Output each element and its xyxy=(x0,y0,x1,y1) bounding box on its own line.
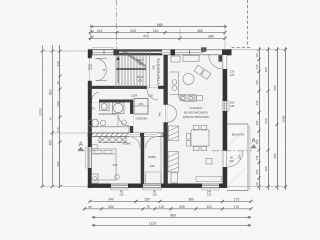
soba2 bed xyxy=(146,172,162,184)
svg-text:170: 170 xyxy=(234,205,240,209)
balcony xyxy=(227,124,250,191)
kitchen counter top rect xyxy=(183,56,199,62)
interior wall room divider xyxy=(141,137,145,184)
interior faint wash xyxy=(91,55,223,184)
svg-text:KUPAONICA: KUPAONICA xyxy=(99,112,116,116)
svg-text:230: 230 xyxy=(56,61,60,66)
bottom dimension row B xyxy=(83,207,253,210)
window top 1 xyxy=(93,51,114,53)
dimension row 1 top (980) xyxy=(90,25,227,27)
svg-text:A: A xyxy=(252,139,256,145)
svg-text:200: 200 xyxy=(255,139,259,144)
svg-text:210: 210 xyxy=(255,80,259,85)
svg-text:220: 220 xyxy=(229,159,234,163)
svg-text:110: 110 xyxy=(255,53,259,58)
interior wall below stairs xyxy=(88,86,164,89)
staircase mid rail xyxy=(116,68,146,70)
bottom dimension row A xyxy=(89,200,253,203)
left dimension line L1 xyxy=(41,45,44,188)
svg-text:220: 220 xyxy=(88,67,93,71)
dimension row 3 top xyxy=(89,37,227,40)
section marker A left xyxy=(78,142,85,151)
window label S2 xyxy=(152,189,157,196)
window top small xyxy=(162,51,171,53)
svg-text:KUHINJA: KUHINJA xyxy=(190,106,203,110)
svg-text:360: 360 xyxy=(49,140,53,146)
bottom dimension row D (1120) xyxy=(92,224,251,226)
svg-text:SOBA: SOBA xyxy=(148,155,156,159)
staircase xyxy=(116,50,146,88)
entry opening jamb lines xyxy=(88,57,92,59)
bathroom shower xyxy=(113,103,125,114)
svg-text:1120: 1120 xyxy=(149,221,157,225)
section line A-A xyxy=(78,150,252,152)
soba1 bed xyxy=(92,149,117,180)
window label S1 xyxy=(119,189,124,196)
dining table xyxy=(187,126,210,151)
interior wall bathroom right xyxy=(130,100,133,134)
svg-text:960: 960 xyxy=(170,213,176,217)
svg-text:55: 55 xyxy=(88,205,92,209)
soba1 wardrobe xyxy=(99,137,126,143)
kitchen counter L xyxy=(170,72,203,102)
svg-text:395: 395 xyxy=(264,166,268,171)
entry double door arcs xyxy=(96,58,108,80)
svg-text:170: 170 xyxy=(234,197,240,201)
label 100/140 right xyxy=(230,101,235,108)
svg-text:20: 20 xyxy=(90,35,94,39)
left wall xyxy=(86,50,92,189)
kitchen round table xyxy=(183,74,194,85)
svg-text:200: 200 xyxy=(255,120,259,125)
staircase break line xyxy=(121,50,147,68)
roof outline dashed horizontal xyxy=(232,47,253,49)
svg-text:SOBA: SOBA xyxy=(122,142,130,146)
kitchen diamonds xyxy=(194,65,211,79)
kitchen door post xyxy=(219,55,223,62)
window top sill outside xyxy=(93,47,114,49)
staircase up arrow xyxy=(116,56,120,83)
right dimension line R3 xyxy=(276,47,279,190)
window bottom 2 xyxy=(143,184,161,188)
svg-text:800: 800 xyxy=(273,85,277,90)
right extension lines xyxy=(228,50,287,187)
corridor door arc xyxy=(92,93,99,100)
svg-text:240: 240 xyxy=(150,164,155,168)
left dimension line L3 xyxy=(59,45,62,188)
svg-text:260: 260 xyxy=(108,205,114,209)
column mark blob xyxy=(201,47,207,52)
kitchen fridge xyxy=(171,56,180,62)
window bottom 3 xyxy=(202,184,219,188)
right dimension line R2 xyxy=(267,47,270,190)
svg-text:220: 220 xyxy=(152,65,156,70)
svg-text:1000: 1000 xyxy=(39,108,43,116)
svg-text:980: 980 xyxy=(157,23,163,27)
bathroom washer xyxy=(100,103,110,111)
interior wall rooms top (hatched) xyxy=(88,133,164,137)
svg-text:165: 165 xyxy=(255,169,259,174)
window top kitchen xyxy=(175,51,204,53)
hodnik door arc to landing xyxy=(147,89,158,100)
hodnik closet xyxy=(134,99,148,115)
svg-text:290: 290 xyxy=(56,161,60,166)
bathroom door arc xyxy=(118,114,130,126)
svg-text:380: 380 xyxy=(197,29,203,33)
soba1 shelf left xyxy=(92,145,98,149)
svg-text:470: 470 xyxy=(143,35,149,39)
living closet hatched upper xyxy=(168,126,179,141)
living small table xyxy=(206,159,212,165)
svg-text:340: 340 xyxy=(108,197,114,201)
svg-text:240: 240 xyxy=(130,29,136,33)
bottom wall xyxy=(88,184,227,191)
svg-text:120A: 120A xyxy=(131,93,138,97)
window left (soba1) xyxy=(87,147,89,168)
balcony door opening xyxy=(222,151,224,168)
svg-text:640: 640 xyxy=(264,118,268,123)
svg-text:120: 120 xyxy=(152,193,157,197)
svg-text:BALKON: BALKON xyxy=(232,132,245,136)
living double door arcs xyxy=(168,105,177,122)
living sofa xyxy=(171,173,178,184)
interior wall stair/living (full height) xyxy=(161,55,168,184)
svg-text:DNEVNI BORAVAK: DNEVNI BORAVAK xyxy=(183,115,209,119)
svg-text:75: 75 xyxy=(146,205,150,209)
svg-text:140: 140 xyxy=(230,104,235,108)
soba2 door arc xyxy=(146,137,158,149)
svg-text:120: 120 xyxy=(206,205,212,209)
svg-text:190: 190 xyxy=(56,101,60,106)
svg-text:HODNIK: HODNIK xyxy=(136,117,148,121)
svg-text:170: 170 xyxy=(56,127,60,132)
balcony door arc xyxy=(227,151,243,167)
bathroom sink xyxy=(100,120,106,126)
balcony floor lines xyxy=(229,128,246,185)
right wall xyxy=(223,55,229,188)
svg-text:220: 220 xyxy=(230,73,235,77)
section marker A right xyxy=(250,139,257,149)
svg-text:90: 90 xyxy=(255,182,259,186)
soba1 door arc xyxy=(129,137,140,148)
right dimension line R4 xyxy=(284,47,287,190)
stair text flight1 xyxy=(136,58,144,65)
window bottom 1 xyxy=(111,184,128,188)
label KUHINJA block xyxy=(183,106,209,119)
svg-text:140: 140 xyxy=(158,112,162,117)
label 130/220 right xyxy=(230,70,235,77)
svg-text:680: 680 xyxy=(273,153,277,158)
svg-text:120: 120 xyxy=(159,205,165,209)
svg-text:120: 120 xyxy=(119,193,124,197)
svg-text:200: 200 xyxy=(179,205,185,209)
svg-text:420: 420 xyxy=(49,89,53,95)
svg-text:130: 130 xyxy=(255,64,259,69)
roof outline dashed vertical xyxy=(247,0,249,48)
axis line vertical dash-dot xyxy=(116,0,118,57)
svg-text:200: 200 xyxy=(237,154,241,159)
bathroom tub xyxy=(89,127,129,133)
right dimension line R1 xyxy=(258,47,261,190)
bottom dimension row C (960) xyxy=(92,216,251,218)
dimension row 2 top xyxy=(89,31,227,34)
label 90/220 balcony door xyxy=(229,156,234,163)
svg-text:380: 380 xyxy=(208,35,214,39)
window right (100/140) xyxy=(223,101,227,111)
svg-text:135: 135 xyxy=(255,155,259,160)
svg-text:310: 310 xyxy=(113,163,118,167)
svg-text:110: 110 xyxy=(153,29,159,33)
left extension lines xyxy=(40,51,87,187)
dimension extension lines top xyxy=(91,24,226,50)
svg-text:/29: /29 xyxy=(138,61,142,65)
left dimension line L2 xyxy=(51,45,54,188)
svg-text:20: 20 xyxy=(90,29,94,33)
svg-text:120: 120 xyxy=(207,193,212,197)
bathroom WC xyxy=(89,119,99,127)
svg-text:380: 380 xyxy=(188,197,194,201)
window label S3 xyxy=(207,189,212,196)
svg-text:STEPENIŠTE: STEPENIŠTE xyxy=(155,57,160,85)
living window bench xyxy=(196,177,222,182)
top wall xyxy=(88,47,232,55)
svg-text:230: 230 xyxy=(255,100,259,105)
svg-text:450: 450 xyxy=(264,67,268,72)
soba2 closet hatched xyxy=(168,152,179,173)
svg-text:250: 250 xyxy=(139,102,144,106)
svg-text:110: 110 xyxy=(97,29,103,33)
svg-text:45: 45 xyxy=(49,117,53,121)
svg-text:1500: 1500 xyxy=(282,115,286,122)
svg-text:150: 150 xyxy=(144,197,150,201)
interior wall bathroom top xyxy=(88,100,133,103)
svg-text:/29: /29 xyxy=(138,78,142,82)
label 130/220 entry xyxy=(88,63,93,70)
stair text flight2 xyxy=(136,75,144,82)
bathroom sink 2 xyxy=(121,120,126,125)
soba1 nightstand xyxy=(92,174,120,183)
svg-text:BLAGOVAONICA: BLAGOVAONICA xyxy=(184,111,208,115)
stair rail line xyxy=(149,50,151,88)
kitchen door arc top right xyxy=(209,55,223,69)
svg-text:30: 30 xyxy=(56,81,60,85)
